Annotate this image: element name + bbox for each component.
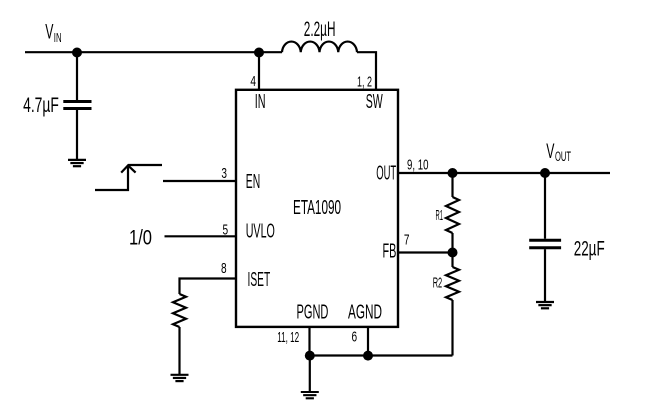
ground R3 bbox=[171, 375, 189, 381]
svg-text:4: 4 bbox=[250, 73, 256, 90]
svg-text:EN: EN bbox=[246, 170, 260, 193]
wire FB stub bbox=[398, 251, 453, 253]
ground C2 bbox=[536, 302, 554, 308]
svg-text:SW: SW bbox=[366, 90, 383, 113]
svg-text:ETA1090: ETA1090 bbox=[293, 197, 341, 219]
svg-text:6: 6 bbox=[352, 329, 358, 346]
wire AGND stub bbox=[367, 327, 369, 356]
junction VIN-C1 bbox=[72, 48, 82, 58]
capacitor C2 22uF bbox=[529, 173, 561, 301]
ground C1 bbox=[68, 160, 86, 166]
wire OUT bbox=[398, 172, 610, 174]
svg-text:V: V bbox=[546, 140, 554, 163]
node VOUT bbox=[546, 140, 571, 164]
junction VIN-IN bbox=[254, 48, 264, 58]
junction OUT-R1 bbox=[448, 168, 458, 178]
svg-text:1/0: 1/0 bbox=[129, 227, 152, 250]
svg-text:ISET: ISET bbox=[248, 268, 271, 291]
inductor L1 2.2uH bbox=[282, 42, 357, 53]
wire PGND to ground bbox=[309, 356, 311, 392]
wire UVLO stub bbox=[165, 235, 238, 237]
wire L1 to SW bbox=[357, 52, 376, 90]
svg-text:9, 10: 9, 10 bbox=[407, 157, 429, 174]
svg-text:R1: R1 bbox=[436, 207, 444, 224]
svg-text:1, 2: 1, 2 bbox=[357, 74, 372, 91]
node VIN bbox=[45, 21, 61, 45]
wire IN stub bbox=[258, 52, 260, 90]
resistor R2 bbox=[446, 253, 459, 356]
junction OUT-C2 bbox=[540, 168, 550, 178]
svg-text:IN: IN bbox=[255, 90, 266, 113]
svg-text:UVLO: UVLO bbox=[246, 219, 275, 242]
wire VIN rail bbox=[25, 51, 282, 53]
svg-text:3: 3 bbox=[221, 165, 227, 182]
svg-text:7: 7 bbox=[404, 231, 410, 248]
svg-text:4.7µF: 4.7µF bbox=[23, 94, 59, 117]
svg-text:FB: FB bbox=[383, 240, 397, 263]
svg-text:OUT: OUT bbox=[555, 149, 571, 164]
wire R3 to ground bbox=[178, 327, 180, 374]
junction PGND-gnd bbox=[305, 351, 315, 361]
rising-edge trigger symbol bbox=[95, 165, 162, 190]
op-amp U1 ETA1090 body bbox=[236, 90, 398, 327]
junction FB-R1-R2 bbox=[448, 248, 458, 258]
svg-text:OUT: OUT bbox=[376, 161, 396, 184]
capacitor C1 4.7uF bbox=[63, 52, 91, 159]
wire PGND stub bbox=[308, 327, 310, 356]
svg-text:R2: R2 bbox=[433, 275, 443, 292]
svg-text:22µF: 22µF bbox=[574, 237, 605, 260]
svg-text:PGND: PGND bbox=[297, 301, 329, 324]
svg-text:11, 12: 11, 12 bbox=[277, 329, 299, 346]
svg-text:V: V bbox=[45, 21, 53, 44]
wire ground rail bbox=[310, 354, 453, 356]
svg-text:2.2µH: 2.2µH bbox=[304, 18, 336, 41]
resistor R1 bbox=[446, 173, 459, 253]
resistor R3 (ISET) bbox=[173, 294, 186, 327]
svg-text:AGND: AGND bbox=[348, 301, 382, 324]
ground PGND bbox=[301, 392, 319, 398]
svg-text:8: 8 bbox=[221, 260, 227, 277]
svg-text:IN: IN bbox=[54, 30, 62, 45]
wire ISET stub bbox=[180, 279, 238, 295]
wire EN stub bbox=[163, 180, 237, 182]
junction AGND-rail bbox=[363, 351, 373, 361]
